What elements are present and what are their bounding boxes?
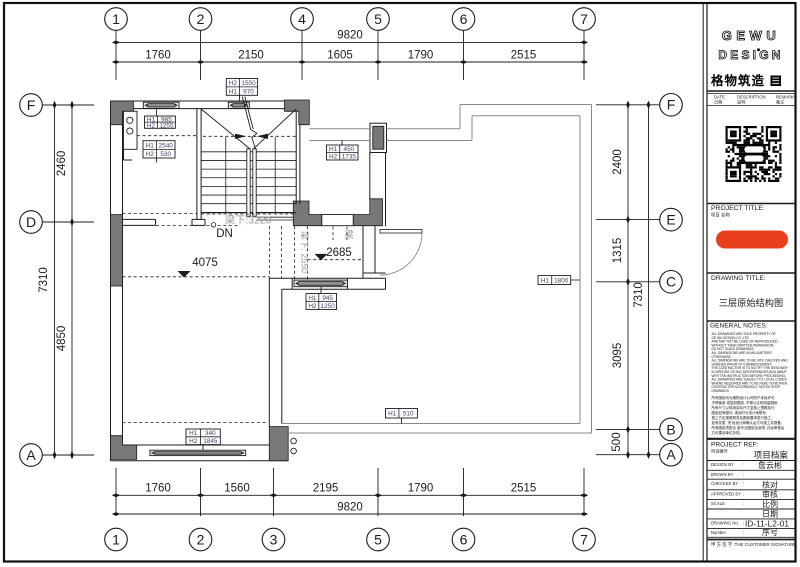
table H1-340 H2-1845 bbox=[186, 429, 220, 450]
svg-text:DN: DN bbox=[216, 228, 233, 240]
wire terrace bottom edge bbox=[282, 424, 592, 434]
logo chinese 格物筑造 bbox=[711, 73, 781, 88]
table H2-1550 H1-970 bbox=[226, 79, 257, 102]
grid bubble 2 top bbox=[189, 8, 212, 31]
svg-text:F: F bbox=[667, 97, 676, 113]
table H1-985 H2-1255 bbox=[145, 109, 176, 130]
grid bubble 5 bottom bbox=[367, 528, 390, 551]
svg-text:所有尺寸以现场实际尺寸复核上遵照执行;: 所有尺寸以现场实际尺寸复核上遵照执行; bbox=[712, 405, 776, 410]
svg-text:ID-11-L2-01: ID-11-L2-01 bbox=[745, 518, 789, 528]
label DN bbox=[216, 228, 233, 240]
wire middle-window-wall bbox=[269, 278, 385, 289]
svg-text:1: 1 bbox=[112, 531, 120, 547]
svg-text:1315: 1315 bbox=[612, 238, 624, 264]
revision header row bbox=[707, 91, 797, 106]
svg-text:DRAWING No.: DRAWING No. bbox=[711, 521, 739, 526]
window W5 middle bbox=[294, 280, 347, 287]
stair break line bbox=[242, 97, 257, 149]
wire terrace parapet upper bbox=[309, 128, 460, 130]
svg-text:4850: 4850 bbox=[56, 326, 68, 352]
svg-text:2400: 2400 bbox=[612, 149, 624, 175]
wire stair-wall-foot bbox=[192, 219, 205, 225]
dimension line 7310 right bbox=[633, 101, 650, 459]
svg-text:9820: 9820 bbox=[337, 502, 363, 514]
svg-text::: : bbox=[743, 530, 744, 535]
svg-text:甲 方 签 字 :THE CUSTOMER SIGNATUR: 甲 方 签 字 :THE CUSTOMER SIGNATURE bbox=[711, 541, 796, 548]
grid leaders left bbox=[42, 105, 94, 455]
grid bubble 3 bottom bbox=[262, 528, 285, 551]
redaction pill bbox=[716, 231, 788, 249]
wire terrace right edge bbox=[580, 105, 592, 434]
svg-text:7: 7 bbox=[580, 11, 588, 27]
wire top-exterior-wall bbox=[111, 101, 310, 109]
gas pipe circles bbox=[291, 438, 297, 454]
svg-text::: : bbox=[743, 481, 744, 486]
grid bubble A right bbox=[660, 443, 683, 466]
wire wall pier-to-column bbox=[370, 153, 386, 227]
svg-text::: : bbox=[743, 462, 744, 467]
beam dashed verticals near room bbox=[270, 226, 308, 280]
svg-text:2195: 2195 bbox=[313, 483, 339, 495]
wall segment hall white bbox=[322, 215, 354, 226]
svg-text:项目编号: 项目编号 bbox=[711, 448, 728, 455]
svg-text:Number.: Number. bbox=[711, 530, 727, 535]
dimension line segments top bbox=[112, 50, 588, 64]
dimension line segments left bbox=[56, 101, 74, 459]
wire stair-left-wall bbox=[197, 109, 201, 220]
svg-text:核对: 核对 bbox=[762, 480, 778, 490]
svg-text:项目档案: 项目档案 bbox=[754, 449, 789, 460]
svg-text:DESIGN: DESIGN bbox=[718, 48, 783, 62]
svg-text:945: 945 bbox=[322, 295, 333, 302]
svg-text:B: B bbox=[666, 421, 675, 437]
window W1 top kitchen bbox=[143, 102, 179, 108]
column left-wall middle bbox=[111, 215, 123, 286]
svg-text:1760: 1760 bbox=[145, 483, 171, 495]
beam dashed short verticals bbox=[333, 227, 354, 242]
dim 2685 with pointer bbox=[308, 247, 364, 260]
svg-text:530: 530 bbox=[160, 151, 171, 158]
table H1-450 H2-1735 bbox=[327, 141, 359, 161]
dim 4075 with pointer bbox=[123, 257, 270, 278]
dimension line segments right bbox=[611, 101, 630, 459]
svg-text:4075: 4075 bbox=[192, 257, 218, 269]
table H1-2540 H2-530 bbox=[143, 141, 175, 163]
svg-text:SCALE: SCALE bbox=[711, 501, 725, 506]
grid bubble 2 bottom bbox=[189, 528, 212, 551]
general notes section bbox=[707, 321, 796, 435]
svg-text:1845: 1845 bbox=[203, 438, 218, 445]
wire terrace outer step bbox=[460, 105, 592, 129]
column bottom-right of room bbox=[269, 427, 288, 461]
window W2 top stair bbox=[228, 102, 249, 108]
svg-text:2150: 2150 bbox=[238, 50, 264, 62]
svg-text:1735: 1735 bbox=[342, 154, 357, 161]
stair dashed landing line bbox=[203, 135, 296, 137]
svg-text:CHECKED BY: CHECKED BY bbox=[711, 481, 738, 486]
svg-text:1255: 1255 bbox=[159, 123, 174, 130]
svg-text:7: 7 bbox=[580, 531, 588, 547]
dimension line segments bottom bbox=[112, 483, 588, 498]
svg-text:梁下:3220: 梁下:3220 bbox=[225, 214, 272, 227]
svg-text:方可建设单位存档。: 方可建设单位存档。 bbox=[712, 430, 744, 435]
grid bubble D left bbox=[20, 211, 43, 234]
dimension line 9820 bottom bbox=[112, 502, 588, 516]
svg-text:GEWU: GEWU bbox=[722, 28, 780, 43]
stair direction arrows bbox=[235, 134, 268, 139]
wire hall-wall-stub bbox=[123, 219, 156, 225]
svg-text:GENERAL NOTES:: GENERAL NOTES: bbox=[710, 323, 768, 330]
grid bubble 1 bottom bbox=[105, 528, 128, 551]
svg-text::: : bbox=[743, 501, 744, 506]
grid bubble 7 bottom bbox=[573, 528, 596, 551]
grid bubble C right bbox=[660, 271, 683, 294]
svg-text:4: 4 bbox=[298, 11, 306, 27]
svg-text:所有图纸均为格物设计公司财产未经许可,: 所有图纸均为格物设计公司财产未经许可, bbox=[712, 395, 776, 400]
svg-text::: : bbox=[743, 472, 744, 477]
column bottom-left corner bbox=[111, 436, 137, 460]
grid bubble 1 top bbox=[105, 8, 128, 31]
svg-text:H1: H1 bbox=[189, 430, 198, 437]
qr code bbox=[726, 126, 782, 183]
svg-text:H2: H2 bbox=[308, 303, 317, 310]
svg-text:1: 1 bbox=[112, 11, 120, 27]
grid bubble F right bbox=[660, 94, 683, 117]
svg-text:2685: 2685 bbox=[326, 247, 352, 259]
svg-text:1760: 1760 bbox=[145, 50, 171, 62]
hall dashed lines bbox=[156, 214, 293, 225]
svg-text:6: 6 bbox=[460, 531, 468, 547]
svg-text:H1: H1 bbox=[388, 411, 397, 418]
wire door-side-wall bbox=[363, 226, 386, 279]
svg-text:DRAWINGS.: DRAWINGS. bbox=[712, 389, 730, 393]
dimension line 7310 left bbox=[38, 101, 56, 459]
grid bubble E right bbox=[660, 208, 683, 231]
grid bubble F left bbox=[20, 94, 43, 117]
grid leaders right bbox=[596, 105, 660, 455]
svg-text:序号: 序号 bbox=[762, 527, 778, 537]
grid bubble 7 top bbox=[573, 8, 596, 31]
svg-text:项目 名称: 项目 名称 bbox=[711, 212, 730, 219]
svg-text:970: 970 bbox=[243, 88, 254, 95]
svg-text:H2: H2 bbox=[329, 154, 338, 161]
stair center rail bbox=[247, 149, 256, 217]
title block frame bbox=[703, 4, 707, 562]
grid bubble B right bbox=[660, 418, 683, 441]
svg-text:H2: H2 bbox=[147, 123, 156, 130]
svg-text:3: 3 bbox=[270, 531, 278, 547]
svg-text:DRAWN BY: DRAWN BY bbox=[711, 472, 734, 477]
svg-text:梁: 梁 bbox=[344, 229, 354, 241]
svg-text::: : bbox=[743, 491, 744, 496]
svg-text:A: A bbox=[666, 447, 676, 463]
table H1-510 bbox=[386, 409, 418, 424]
svg-text:500: 500 bbox=[611, 432, 623, 451]
kitchen dashed lines bbox=[123, 136, 197, 214]
svg-text:日期: 日期 bbox=[762, 510, 778, 519]
grid verticals top bbox=[116, 31, 584, 81]
grid bubble A left bbox=[20, 444, 43, 467]
svg-text:H1: H1 bbox=[329, 146, 338, 153]
label beam 3220 bbox=[211, 214, 271, 228]
kitchen counter bbox=[124, 111, 138, 160]
door D1 swing arc bbox=[380, 233, 422, 275]
svg-text:图纸如有疑问, 请及时与设计师联系;: 图纸如有疑问, 请及时与设计师联系; bbox=[712, 410, 767, 415]
svg-text:APPROVED BY: APPROVED BY bbox=[711, 491, 741, 496]
label beam 2550 vertical bbox=[300, 231, 311, 273]
svg-text:C: C bbox=[666, 274, 676, 290]
project title section bbox=[707, 204, 796, 219]
door D1 leaf bbox=[380, 230, 422, 234]
svg-text:F: F bbox=[27, 97, 36, 113]
wire room-right-wall bbox=[269, 278, 282, 426]
svg-text:2515: 2515 bbox=[511, 483, 537, 495]
svg-text:2: 2 bbox=[197, 11, 205, 27]
svg-text:比例: 比例 bbox=[762, 499, 778, 509]
svg-text:DESIGN BY: DESIGN BY bbox=[711, 462, 734, 467]
svg-text:340: 340 bbox=[205, 430, 216, 437]
svg-text:DRAWING TITLE:: DRAWING TITLE: bbox=[711, 275, 766, 282]
svg-text:6: 6 bbox=[460, 11, 468, 27]
svg-text:7310: 7310 bbox=[633, 282, 645, 308]
svg-text:2: 2 bbox=[197, 531, 205, 547]
grid bubble 5 top bbox=[367, 8, 390, 31]
stair winder diagonals bbox=[201, 109, 296, 149]
svg-text:1790: 1790 bbox=[408, 483, 434, 495]
grid bubble 6 bottom bbox=[452, 528, 475, 551]
svg-text:5: 5 bbox=[374, 11, 382, 27]
wire left-exterior-wall bbox=[111, 101, 123, 461]
svg-text:H2: H2 bbox=[146, 151, 155, 158]
svg-text:5: 5 bbox=[374, 531, 382, 547]
svg-text:施工方应按照规范及图纸要求进行施工,: 施工方应按照规范及图纸要求进行施工, bbox=[712, 415, 772, 420]
svg-text:2460: 2460 bbox=[56, 151, 68, 177]
column hall dark L2 bbox=[353, 199, 382, 226]
svg-text:所有图纸须配合 各专业图纸及说明, 并经审核后: 所有图纸须配合 各专业图纸及说明, 并经审核后 bbox=[712, 425, 785, 430]
svg-text:A: A bbox=[26, 447, 36, 463]
svg-text:梁下: 2550: 梁下: 2550 bbox=[300, 231, 311, 273]
svg-text:2540: 2540 bbox=[159, 142, 174, 149]
column top-right L bbox=[285, 100, 310, 125]
drawing title section bbox=[707, 273, 796, 308]
wire stair-right-wall bbox=[296, 111, 300, 204]
svg-text:审核: 审核 bbox=[762, 489, 778, 499]
svg-text:1560: 1560 bbox=[224, 483, 250, 495]
stair well edges bbox=[226, 137, 275, 213]
wire terrace parapet lower bbox=[309, 140, 472, 142]
svg-text:1790: 1790 bbox=[408, 50, 434, 62]
svg-text:H1: H1 bbox=[229, 88, 238, 95]
column hall dark L1 bbox=[293, 201, 322, 226]
svg-text:H1: H1 bbox=[308, 295, 317, 302]
project ref table bbox=[707, 439, 796, 548]
wire terrace inner step bbox=[472, 116, 580, 141]
grid bubble 6 top bbox=[452, 8, 475, 31]
stair treads bbox=[201, 152, 296, 213]
svg-text:三层原始结构图: 三层原始结构图 bbox=[719, 297, 783, 308]
logo CEWU DESIGN bbox=[718, 28, 783, 62]
svg-text:不得使用 或复制图纸, 不得以比例测量图纸;: 不得使用 或复制图纸, 不得以比例测量图纸; bbox=[712, 400, 779, 405]
table H1-945 H2-1250 bbox=[306, 287, 337, 310]
dimension line 9820 top bbox=[112, 30, 588, 45]
svg-text:E: E bbox=[666, 212, 675, 228]
svg-text:H1: H1 bbox=[541, 277, 550, 284]
svg-text:PROJECT TITLE:: PROJECT TITLE: bbox=[711, 205, 765, 212]
svg-text:9820: 9820 bbox=[337, 30, 363, 42]
svg-text:1605: 1605 bbox=[327, 50, 353, 62]
table H1-1800 bbox=[538, 276, 580, 285]
svg-text:说明: 说明 bbox=[737, 99, 745, 106]
svg-text:7310: 7310 bbox=[38, 267, 50, 293]
svg-text:詹云彬: 詹云彬 bbox=[758, 460, 782, 470]
svg-text:2515: 2515 bbox=[511, 50, 537, 62]
svg-text:3095: 3095 bbox=[612, 343, 624, 369]
svg-text:1250: 1250 bbox=[321, 303, 336, 310]
svg-text:1800: 1800 bbox=[554, 277, 569, 284]
column top-left corner bbox=[111, 101, 134, 125]
svg-text:H1: H1 bbox=[146, 142, 155, 149]
svg-text:450: 450 bbox=[344, 146, 355, 153]
svg-text:1550: 1550 bbox=[241, 80, 256, 87]
svg-text:备注: 备注 bbox=[776, 99, 785, 106]
svg-text:格物筑造: 格物筑造 bbox=[711, 73, 765, 88]
svg-text:PROJECT REF:: PROJECT REF: bbox=[711, 442, 759, 449]
svg-text:如有变更, 须 经设计师确认后方可施工并报备,: 如有变更, 须 经设计师确认后方可施工并报备, bbox=[712, 420, 782, 425]
grid verticals bottom bbox=[116, 468, 584, 516]
room dashed line bottom bbox=[123, 422, 268, 424]
wire bottom-exterior-wall bbox=[111, 445, 289, 461]
terrace pier column bbox=[370, 123, 387, 152]
svg-text:D: D bbox=[26, 214, 36, 230]
svg-text:H2: H2 bbox=[229, 80, 238, 87]
window W6 bottom room bbox=[150, 450, 246, 455]
svg-text:H2: H2 bbox=[189, 438, 198, 445]
svg-text:510: 510 bbox=[403, 411, 414, 418]
wire stair-exit-wall bbox=[257, 217, 294, 220]
grid bubble 4 top bbox=[291, 8, 314, 31]
